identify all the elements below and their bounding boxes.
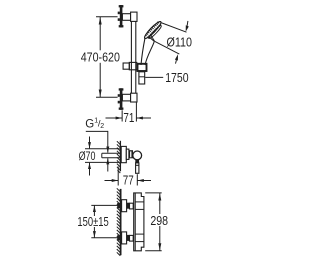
svg-text:G1/2: G1/2 (85, 118, 104, 131)
svg-text:1750: 1750 (165, 70, 188, 85)
svg-text:470-620: 470-620 (81, 49, 120, 64)
svg-text:298: 298 (150, 213, 168, 228)
svg-text:71: 71 (123, 110, 134, 125)
svg-text:150±15: 150±15 (77, 214, 108, 229)
svg-text:Ø110: Ø110 (167, 35, 193, 50)
svg-text:Ø70: Ø70 (79, 151, 96, 163)
svg-text:77: 77 (123, 172, 134, 187)
